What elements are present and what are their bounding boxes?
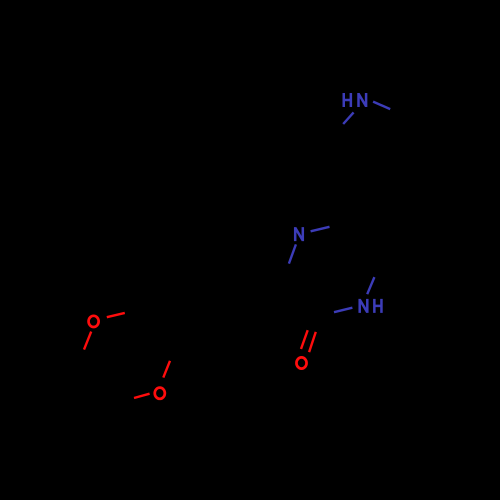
bond O-CH2 (red half, left) [134, 394, 150, 398]
bond O-Caryl (red half, up-right) [163, 361, 170, 378]
bond NH-C2carbonyl (blue half) [334, 308, 352, 313]
bond N1-C7a indole (blue half) [343, 112, 353, 124]
atom label N4 pyrazine ring [295, 227, 303, 241]
C=O double bond line 2 (red half) [309, 332, 316, 352]
atom label O dioxane lower [155, 388, 165, 399]
atom label amide N: letter N of "NH" [360, 299, 368, 313]
bond N4-C3 (blue half) [289, 244, 296, 263]
bond N4-C5 (blue half) [311, 227, 330, 232]
bond N1-C2 indole (blue half) [373, 102, 390, 110]
atom label N1 indole: letter N of "HN" [359, 93, 367, 107]
atom label O carbonyl [296, 357, 306, 368]
atom label N1 indole: letter H of "HN" [344, 93, 351, 107]
bond O-Caryl (red half, down-left) [84, 332, 91, 350]
atom label O dioxane upper-left [89, 316, 99, 327]
C=O double bond line 1 (red half) [301, 330, 308, 349]
atom label amide N: letter H of "NH" [374, 299, 381, 313]
bond NH-C6 (blue half) [367, 277, 374, 294]
bond O-CH2 (red half, up-right) [107, 313, 125, 317]
